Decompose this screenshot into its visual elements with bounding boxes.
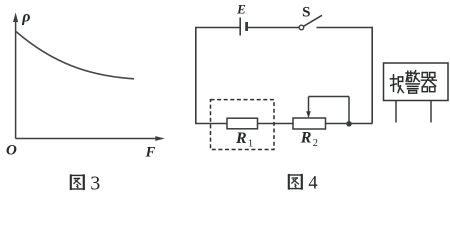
svg-text:R: R	[235, 130, 247, 147]
caption glyph 图 (figure 3)	[71, 175, 84, 189]
wire: bottom, R2 to right corner	[326, 123, 373, 125]
alarm box	[384, 63, 449, 101]
alarm label glyph 报	[390, 75, 403, 93]
curve rho(F)	[16, 32, 134, 79]
junction dot	[346, 121, 352, 127]
caption glyph 图 (figure 4)	[289, 175, 302, 189]
wire: loop right side	[371, 27, 373, 124]
wire: top, battery to switch	[247, 27, 299, 29]
alarm lead right	[430, 101, 432, 123]
alarm label glyph 器	[421, 73, 436, 92]
resistor R1	[227, 118, 258, 129]
svg-text:F: F	[145, 145, 156, 161]
dashed box around R1	[211, 100, 275, 150]
wire: top, left of battery	[195, 27, 240, 29]
battery E: short thick plate	[245, 22, 248, 31]
wire: bottom, R1 to R2	[258, 123, 294, 125]
wiper wire horizontal	[309, 96, 350, 98]
wire: loop left side	[195, 28, 197, 124]
y-axis	[15, 20, 17, 139]
svg-text:O: O	[6, 142, 17, 158]
switch S: lever	[304, 15, 322, 26]
battery E: long plate	[239, 18, 241, 36]
svg-text:4: 4	[308, 174, 317, 193]
x-axis arrowhead	[155, 136, 165, 141]
alarm label glyph 警	[406, 71, 420, 93]
svg-text:S: S	[302, 4, 310, 20]
svg-text:ρ: ρ	[21, 9, 30, 26]
y-axis arrowhead	[13, 13, 18, 23]
rheostat R2 body	[293, 118, 326, 129]
wire: top, switch to right corner	[317, 27, 373, 29]
switch S: pivot circle	[299, 25, 304, 30]
wire: bottom, left corner to R1	[195, 123, 228, 125]
svg-text:3: 3	[90, 172, 100, 193]
R2 wiper arrow shaft	[308, 97, 310, 113]
svg-text:1: 1	[248, 138, 253, 149]
x-axis	[16, 138, 157, 140]
wiper wire down to bottom	[348, 97, 350, 124]
svg-text:E: E	[236, 2, 246, 17]
svg-text:2: 2	[313, 138, 318, 149]
alarm lead left	[395, 101, 397, 123]
R2 wiper arrowhead	[306, 111, 311, 118]
svg-text:R: R	[300, 130, 312, 147]
